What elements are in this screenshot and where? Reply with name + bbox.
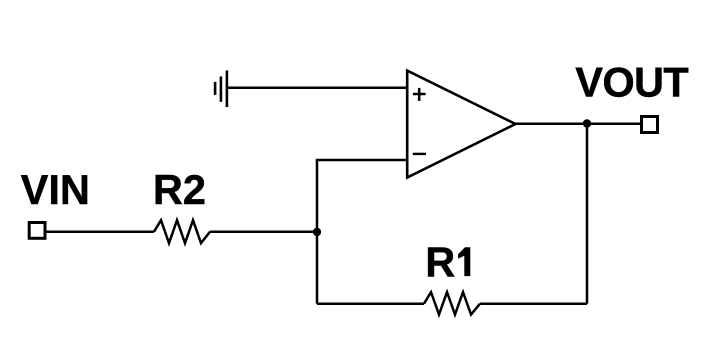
wire output node down [586, 124, 589, 304]
wire ground to op-amp noninverting input [227, 87, 408, 90]
op-amp U1 [407, 71, 515, 178]
svg-text:VIN: VIN [21, 166, 90, 213]
wire input node up [316, 160, 319, 232]
VIN terminal [29, 223, 45, 239]
wire R2 to input node [210, 230, 317, 233]
wire VIN terminal to R2 [47, 230, 155, 233]
svg-text:R: R [425, 239, 455, 286]
resistor R2 [154, 220, 210, 243]
svg-text:R2: R2 [153, 166, 206, 213]
ground [215, 70, 227, 107]
node input junction [313, 228, 321, 236]
VOUT terminal [642, 117, 658, 133]
wire to op-amp inverting input [316, 159, 408, 162]
wire op-amp output to VOUT terminal [516, 122, 642, 125]
svg-text:VOUT: VOUT [575, 58, 688, 105]
wire input node down [316, 232, 319, 304]
resistor R1 [424, 292, 480, 314]
wire R1 to right vertical [480, 302, 587, 305]
R1 label [425, 239, 470, 286]
node output junction [583, 119, 591, 127]
wire bottom left to R1 [317, 302, 424, 305]
